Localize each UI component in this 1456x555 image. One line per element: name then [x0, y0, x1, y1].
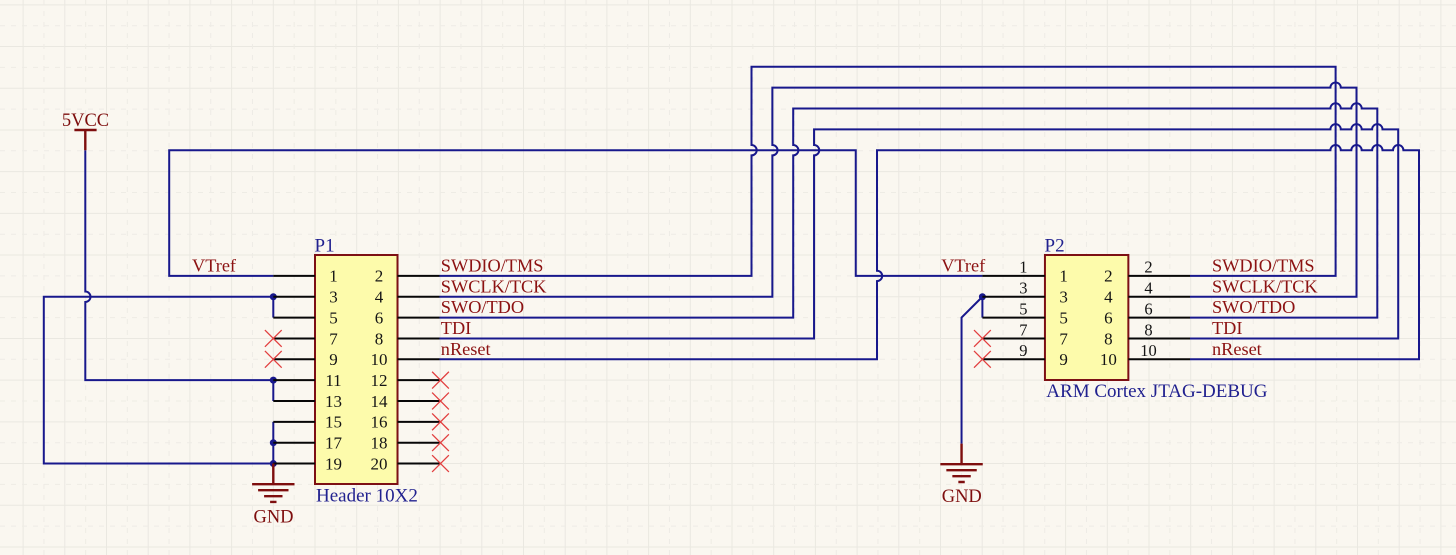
svg-text:6: 6 — [1144, 299, 1152, 318]
svg-text:GND: GND — [253, 507, 293, 527]
svg-text:11: 11 — [325, 371, 341, 390]
P1 pin 7 — [273, 337, 315, 339]
no-connect X at P1 pin18 — [432, 434, 449, 451]
P1 pin 3 — [273, 296, 315, 298]
svg-text:10: 10 — [1140, 341, 1157, 360]
svg-text:16: 16 — [371, 413, 388, 432]
no-connect X at P2 pin9 — [974, 351, 991, 368]
svg-text:VTref: VTref — [941, 256, 986, 276]
svg-text:Header 10X2: Header 10X2 — [316, 485, 418, 506]
svg-text:8: 8 — [375, 329, 384, 348]
P1 pin 12 — [398, 379, 440, 381]
P1 pin 14 — [398, 400, 440, 402]
svg-text:15: 15 — [325, 413, 342, 432]
svg-text:nReset: nReset — [441, 339, 491, 359]
P1 pin 17 — [273, 442, 315, 444]
svg-text:TDI: TDI — [1212, 318, 1242, 338]
svg-text:SWCLK/TCK: SWCLK/TCK — [441, 276, 547, 296]
wire net 5VCC: power port to P1 pin11 — [85, 150, 273, 380]
svg-text:8: 8 — [1144, 320, 1152, 339]
svg-text:SWCLK/TCK: SWCLK/TCK — [1212, 276, 1318, 296]
P2 pin 1 — [982, 275, 1045, 277]
P2 pin 3 — [982, 296, 1045, 298]
junction at P1 pin19 — [270, 460, 277, 467]
wire net SWDIO/TMS: P1 pin2 to P2 pin2 — [440, 67, 1336, 276]
P1 pin 16 — [398, 421, 440, 423]
svg-text:2: 2 — [1144, 258, 1152, 277]
svg-text:7: 7 — [1059, 329, 1068, 348]
svg-text:3: 3 — [1059, 288, 1068, 307]
P1 pin 19 — [273, 463, 315, 465]
svg-text:6: 6 — [375, 308, 384, 327]
wire net GND: P1 pin3 loop to P1 pin19 — [44, 297, 273, 464]
svg-text:ARM Cortex JTAG-DEBUG: ARM Cortex JTAG-DEBUG — [1046, 381, 1267, 402]
svg-text:3: 3 — [1019, 279, 1027, 298]
svg-text:TDI: TDI — [441, 318, 471, 338]
junction at P2 pin3 — [979, 293, 986, 300]
no-connect X at P1 pin14 — [432, 393, 449, 410]
svg-text:4: 4 — [1144, 279, 1152, 298]
svg-text:2: 2 — [1104, 267, 1113, 286]
P2 pin 7 — [982, 337, 1045, 339]
P2 pin 8 — [1128, 337, 1190, 339]
svg-text:4: 4 — [375, 288, 384, 307]
svg-text:GND: GND — [942, 487, 982, 507]
no-connect X at P1 pin9 — [265, 351, 282, 368]
no-connect X at P1 pin16 — [432, 413, 449, 430]
svg-text:9: 9 — [1019, 341, 1027, 360]
svg-text:5: 5 — [1019, 299, 1027, 318]
svg-text:5: 5 — [1059, 308, 1068, 327]
svg-text:1: 1 — [1019, 258, 1027, 277]
svg-text:7: 7 — [1019, 320, 1027, 339]
svg-text:P2: P2 — [1045, 236, 1065, 257]
svg-text:8: 8 — [1104, 329, 1113, 348]
junction at P1 pin11 — [270, 377, 277, 384]
wire net 5VCC tie: P1 pin11 to pin13 — [272, 380, 274, 401]
svg-text:13: 13 — [325, 392, 342, 411]
svg-text:7: 7 — [329, 329, 338, 348]
svg-text:17: 17 — [325, 434, 343, 453]
connector P1 body — [315, 255, 398, 484]
svg-text:5: 5 — [329, 308, 338, 327]
no-connect X at P1 pin12 — [432, 372, 449, 389]
wire net GND: P2 pin3 to ground symbol — [962, 297, 983, 444]
P1 pin 8 — [398, 337, 440, 339]
P1 pin 2 — [398, 275, 440, 277]
svg-text:9: 9 — [329, 350, 338, 369]
no-connect X at P1 pin20 — [432, 455, 449, 472]
svg-text:2: 2 — [375, 267, 384, 286]
P1 pin 15 — [273, 421, 315, 423]
svg-text:19: 19 — [325, 454, 342, 473]
P1 pin 20 — [398, 463, 440, 465]
svg-text:9: 9 — [1059, 350, 1068, 369]
power port 5VCC — [62, 111, 109, 150]
svg-text:3: 3 — [329, 288, 338, 307]
no-connect X at P1 pin7 — [265, 330, 282, 347]
svg-text:5VCC: 5VCC — [62, 111, 109, 131]
svg-text:1: 1 — [329, 267, 338, 286]
P2 pin 10 — [1128, 358, 1190, 360]
wire net GND tie: P1 pin3 to pin5 — [272, 297, 274, 318]
wire net GND tie: P1 pin15 to pin17 to pin19 — [272, 422, 274, 464]
svg-text:P1: P1 — [315, 236, 335, 257]
svg-text:10: 10 — [1100, 350, 1117, 369]
svg-text:4: 4 — [1104, 288, 1113, 307]
P1 pin 9 — [273, 358, 315, 360]
wire net nReset: P1 pin10 to P2 pin10 — [440, 145, 1420, 359]
svg-text:SWDIO/TMS: SWDIO/TMS — [1212, 256, 1315, 276]
svg-text:VTref: VTref — [192, 256, 237, 276]
P2 pin 2 — [1128, 275, 1190, 277]
P1 pin 6 — [398, 317, 440, 319]
P1 pin 11 — [273, 379, 315, 381]
P1 pin 18 — [398, 442, 440, 444]
P2 pin 9 — [982, 358, 1045, 360]
no-connect X at P2 pin7 — [974, 330, 991, 347]
junction at P1 pin3 — [270, 293, 277, 300]
svg-text:20: 20 — [371, 454, 388, 473]
P1 pin 1 — [273, 275, 315, 277]
ground GND (P1) — [252, 464, 294, 528]
wire net SWCLK/TCK: P1 pin4 to P2 pin4 — [440, 82, 1357, 296]
P2 pin 5 — [982, 317, 1045, 319]
wire net SWO/TDO: P1 pin6 to P2 pin6 — [440, 103, 1378, 317]
svg-text:10: 10 — [371, 350, 388, 369]
wire net VTref: P1 pin1 to P2 pin1 — [169, 150, 982, 276]
svg-text:18: 18 — [371, 434, 388, 453]
wire net TDI: P1 pin8 to P2 pin8 — [440, 124, 1399, 338]
P1 pin 10 — [398, 358, 440, 360]
svg-text:6: 6 — [1104, 308, 1113, 327]
connector P2 body — [1045, 255, 1128, 380]
svg-text:14: 14 — [371, 392, 389, 411]
svg-text:12: 12 — [371, 371, 388, 390]
wire net GND tie: P2 pin3 to pin5 — [981, 297, 983, 318]
svg-text:nReset: nReset — [1212, 339, 1262, 359]
svg-text:SWO/TDO: SWO/TDO — [1212, 297, 1295, 317]
svg-text:1: 1 — [1059, 267, 1068, 286]
svg-text:SWDIO/TMS: SWDIO/TMS — [441, 256, 544, 276]
P1 pin 4 — [398, 296, 440, 298]
P2 pin 6 — [1128, 317, 1190, 319]
junction at P1 pin17 — [270, 439, 277, 446]
ground GND (P2) — [940, 444, 982, 507]
P2 pin 4 — [1128, 296, 1190, 298]
svg-text:SWO/TDO: SWO/TDO — [441, 297, 524, 317]
P1 pin 5 — [273, 317, 315, 319]
P1 pin 13 — [273, 400, 315, 402]
